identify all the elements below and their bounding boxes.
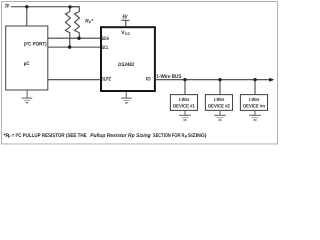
svg-text:3V: 3V: [5, 4, 10, 10]
svg-text:RP*: RP*: [85, 18, 94, 24]
svg-text:DS2482: DS2482: [118, 62, 134, 68]
wire SDA: [48, 37, 101, 39]
svg-text:1-Wire: 1-Wire: [179, 97, 190, 103]
IC U1 DS2482 box: [101, 27, 155, 91]
wire SCL: [48, 46, 101, 48]
svg-text:SCL: SCL: [102, 45, 109, 51]
svg-text:DEVICE #1: DEVICE #1: [173, 104, 195, 110]
resistor RP left (pullup to SCL): [65, 7, 70, 47]
svg-text:1-Wire: 1-Wire: [214, 97, 225, 103]
svg-text:Pullup Resistor Rp Sizing: Pullup Resistor Rp Sizing: [90, 133, 151, 139]
svg-text:5V: 5V: [122, 15, 128, 21]
junction dot SDA-resistor: [77, 37, 80, 40]
svg-text:CC: CC: [125, 32, 131, 36]
wire SLPZ: [48, 79, 101, 81]
1-Wire device #1 box: [170, 95, 197, 111]
wire bus to device 2: [219, 80, 221, 95]
microcontroller uC box: [6, 26, 48, 90]
junction dot SCL-resistor: [68, 45, 71, 48]
svg-text:SDA: SDA: [102, 36, 109, 42]
resistor RP right (pullup to SDA): [70, 7, 80, 38]
page frame: [1, 1, 277, 144]
ground below device 2: [214, 110, 226, 120]
wire bus to device 3: [254, 80, 256, 95]
wire 5V to VCC: [125, 20, 127, 27]
svg-text:1-Wire: 1-Wire: [249, 97, 260, 103]
1-Wire device #2 box: [205, 95, 232, 111]
svg-text:P: P: [8, 135, 11, 139]
svg-text:SIZING): SIZING): [188, 133, 207, 139]
junction dot on 3V rail above uC: [25, 5, 28, 8]
wire 3V rail: [11, 6, 80, 8]
svg-text:µC: µC: [24, 61, 30, 67]
svg-text:SECTION FOR R: SECTION FOR R: [153, 133, 185, 139]
ground below device 1: [179, 110, 191, 120]
ground below DS2482: [121, 92, 131, 103]
ground below uC: [22, 90, 33, 103]
svg-text:SLPZ: SLPZ: [101, 77, 111, 83]
wire 1-Wire bus from IO: [155, 79, 270, 81]
junction dot bus to device 2: [218, 78, 221, 81]
junction dot bus to device 3: [253, 78, 256, 81]
5V terminal bar: [121, 19, 129, 21]
wire bus to device 1: [184, 80, 186, 95]
svg-text:1-Wire BUS: 1-Wire BUS: [156, 74, 181, 80]
svg-text:= I²C PULLUP RESISTOR (SEE THE: = I²C PULLUP RESISTOR (SEE THE: [12, 133, 87, 139]
wire 3V down to uC: [26, 7, 28, 26]
ground below device 3: [249, 110, 261, 120]
svg-text:DEVICE #2: DEVICE #2: [208, 104, 230, 110]
svg-text:IO: IO: [146, 77, 151, 83]
arrowhead of 1-Wire bus: [269, 78, 274, 82]
junction dot bus to device 1: [183, 78, 186, 81]
1-Wire device #n box: [240, 95, 267, 111]
junction dot on 3V rail above left resistor: [68, 5, 71, 8]
svg-text:DEVICE #n: DEVICE #n: [243, 104, 265, 110]
svg-text:(I²C PORT): (I²C PORT): [24, 42, 47, 48]
